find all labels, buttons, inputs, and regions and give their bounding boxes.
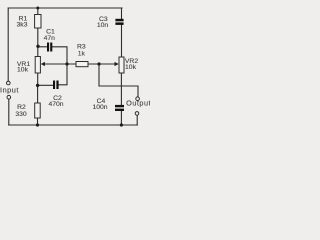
- VR2 wiper arrow: [115, 62, 119, 66]
- svg-text:Output: Output: [126, 99, 150, 108]
- svg-text:1k: 1k: [78, 50, 86, 57]
- node junction C4/ground rail: [120, 123, 123, 126]
- VR1 wiper arrow: [41, 62, 45, 66]
- input terminal bottom: [7, 95, 11, 99]
- potentiometer VR1: [35, 57, 45, 74]
- wire input ground lead: [8, 99, 10, 125]
- wire C1 left lead: [38, 46, 47, 48]
- wire node D down and across to output: [99, 64, 138, 97]
- node B junction C2 tap: [36, 84, 39, 87]
- wire node A to VR1 top: [37, 46, 39, 57]
- wire output ground lead: [136, 115, 138, 125]
- capacitor C2: [53, 81, 59, 90]
- wire R2 bottom lead: [37, 118, 39, 125]
- svg-text:100n: 100n: [92, 104, 107, 111]
- resistor R3: [76, 62, 88, 67]
- wire bottom ground rail: [9, 124, 138, 126]
- wire R1 top lead: [37, 8, 39, 15]
- wire node B to R2 top: [37, 85, 39, 103]
- resistor R2: [35, 103, 41, 118]
- node junction R2/ground rail: [36, 123, 39, 126]
- wire C1 right lead and drop to node C: [52, 47, 67, 64]
- svg-text:10k: 10k: [17, 66, 29, 73]
- node C junction C1/C2 to wiper wire: [65, 62, 68, 65]
- potentiometer VR2: [115, 57, 125, 73]
- node D junction output tap: [97, 62, 100, 65]
- resistor R1: [35, 15, 41, 29]
- wire VR2 bottom lead crossing to C4: [120, 73, 122, 105]
- node junction R1/top rail: [36, 7, 39, 10]
- input terminal top: [7, 81, 11, 85]
- capacitor C3: [115, 19, 123, 25]
- svg-text:Input: Input: [0, 85, 19, 94]
- svg-text:3k3: 3k3: [17, 21, 28, 28]
- wire C2 left lead: [38, 84, 53, 86]
- wire VR1 bottom to node B: [37, 73, 39, 85]
- wire left input branch: [7, 8, 9, 81]
- svg-text:10k: 10k: [125, 64, 137, 71]
- wire R3 right to VR2 wiper: [88, 63, 115, 65]
- wire R1 bottom lead to node A: [37, 28, 39, 46]
- output terminal bottom: [135, 112, 139, 116]
- wire C4 bottom lead to ground rail: [120, 111, 122, 125]
- svg-text:47n: 47n: [44, 35, 56, 42]
- svg-text:10n: 10n: [97, 22, 109, 29]
- svg-text:R2: R2: [17, 104, 26, 111]
- capacitor C1: [47, 43, 52, 52]
- wire C2 right lead up to node C: [59, 64, 67, 85]
- wire top rail: [8, 7, 122, 9]
- node A junction C1 tap: [36, 45, 39, 48]
- capacitor C4: [115, 105, 124, 111]
- output terminal top: [136, 97, 140, 101]
- wire C3 top lead from rail: [121, 8, 123, 19]
- svg-text:470n: 470n: [48, 101, 63, 108]
- wire C3 bottom lead to VR2 top: [121, 25, 123, 57]
- wire VR1 wiper to R3 left: [44, 63, 76, 65]
- svg-text:330: 330: [15, 111, 27, 118]
